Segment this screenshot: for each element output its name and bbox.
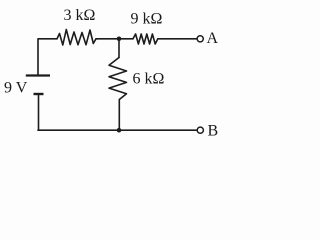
- svg-text:A: A: [207, 30, 219, 47]
- wire node to R3: [118, 39, 120, 58]
- wire R2 to terminal A: [158, 38, 197, 40]
- svg-text:B: B: [208, 123, 219, 140]
- resistor R1 3 kΩ: [57, 30, 96, 46]
- svg-text:9 kΩ: 9 kΩ: [131, 11, 163, 28]
- wire battery minus to bottom: [38, 95, 40, 130]
- wire node to R2: [119, 38, 133, 40]
- resistor R3 6 kΩ: [109, 58, 127, 100]
- terminal A circle: [197, 36, 203, 42]
- wire R1 to node: [96, 38, 119, 40]
- wire R3 to bottom: [118, 100, 120, 131]
- svg-text:9 V: 9 V: [4, 80, 28, 97]
- junction dot top node: [117, 37, 122, 42]
- terminal B circle: [197, 127, 203, 133]
- battery V1 plus plate: [26, 74, 50, 76]
- svg-text:6 kΩ: 6 kΩ: [133, 71, 165, 88]
- wire bottom: [38, 129, 197, 131]
- resistor R2 9 kΩ: [133, 34, 158, 44]
- battery V1 minus plate: [34, 93, 44, 95]
- svg-text:3 kΩ: 3 kΩ: [64, 7, 96, 24]
- wire top-left from battery to resistor R1: [38, 39, 57, 75]
- junction dot bottom node: [117, 128, 122, 133]
